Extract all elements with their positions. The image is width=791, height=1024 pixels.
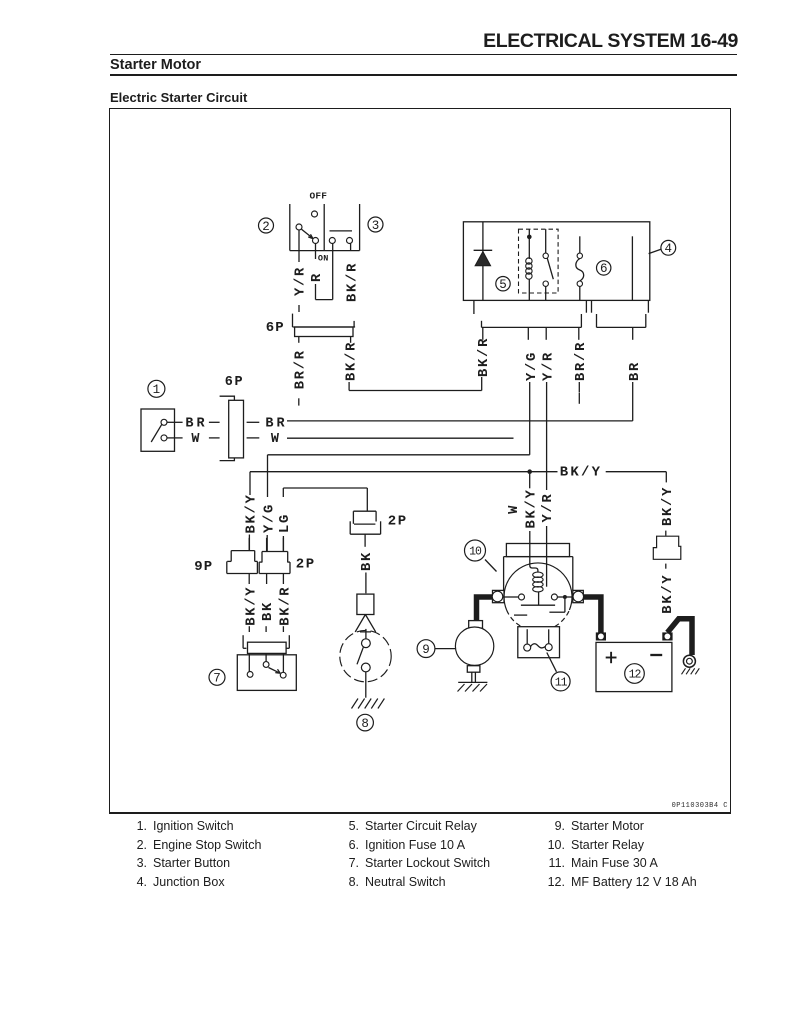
svg-text:2P: 2P [388, 514, 408, 530]
svg-text:BK: BK [360, 551, 375, 571]
svg-text:BK/Y: BK/Y [243, 586, 259, 626]
svg-text:BK/R: BK/R [344, 341, 360, 381]
svg-text:Y/R: Y/R [540, 351, 556, 381]
svg-text:BK/Y: BK/Y [560, 465, 602, 481]
svg-text:ON: ON [318, 253, 329, 263]
svg-text:OFF: OFF [309, 190, 327, 201]
svg-text:W: W [271, 432, 280, 447]
svg-text:2: 2 [262, 220, 270, 234]
svg-text:BR/R: BR/R [293, 349, 309, 389]
svg-text:BK/Y: BK/Y [660, 486, 676, 526]
svg-text:BR: BR [628, 361, 643, 381]
svg-text:11: 11 [555, 676, 568, 689]
svg-text:BK: BK [261, 601, 276, 621]
svg-text:Y/R: Y/R [540, 492, 556, 522]
svg-text:10: 10 [469, 545, 482, 558]
svg-text:7: 7 [213, 672, 221, 686]
svg-text:LG: LG [278, 513, 293, 533]
svg-text:BK/Y: BK/Y [244, 493, 260, 533]
svg-text:W: W [191, 432, 200, 447]
svg-text:9: 9 [422, 643, 430, 657]
svg-text:9P: 9P [194, 559, 213, 575]
svg-text:BK/R: BK/R [278, 586, 294, 626]
svg-text:BR/R: BR/R [573, 341, 589, 381]
svg-text:BK/R: BK/R [476, 337, 492, 377]
svg-text:Y/R: Y/R [293, 266, 309, 296]
svg-text:Y/G: Y/G [261, 503, 277, 533]
svg-text:6P: 6P [225, 375, 244, 390]
svg-text:4: 4 [665, 242, 673, 256]
svg-text:1: 1 [153, 383, 161, 397]
svg-text:R: R [310, 272, 325, 282]
svg-text:Y/G: Y/G [524, 351, 540, 381]
svg-text:BK/Y: BK/Y [524, 488, 540, 528]
svg-text:BK/R: BK/R [344, 262, 360, 302]
svg-text:3: 3 [372, 219, 380, 233]
svg-text:6: 6 [600, 262, 608, 276]
svg-text:BR: BR [265, 417, 287, 432]
svg-text:BK/Y: BK/Y [660, 574, 676, 614]
svg-text:12: 12 [629, 668, 642, 681]
svg-text:8: 8 [361, 717, 369, 731]
svg-text:2P: 2P [296, 557, 316, 573]
svg-text:6P: 6P [266, 320, 285, 336]
svg-text:W: W [507, 504, 522, 514]
svg-text:5: 5 [499, 278, 507, 292]
svg-text:BR: BR [185, 417, 207, 432]
